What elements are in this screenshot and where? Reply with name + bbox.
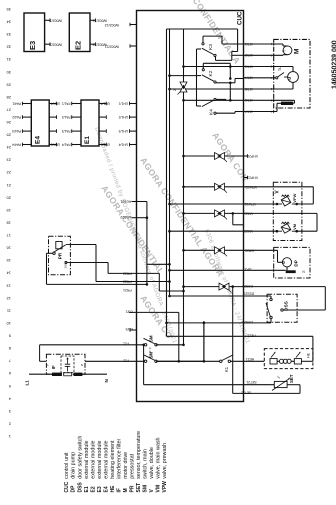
- svg-text:W002/21: W002/21: [105, 44, 119, 48]
- svg-text:PA4/3: PA4/3: [12, 129, 21, 133]
- svg-text:external module: external module: [97, 440, 103, 478]
- svg-text:UH1/4: UH1/4: [118, 143, 128, 147]
- svg-text:21: 21: [6, 183, 11, 188]
- svg-text:E2: E2: [73, 41, 82, 50]
- svg-text:control unit: control unit: [64, 452, 70, 479]
- svg-text:DP: DP: [71, 485, 77, 493]
- svg-text:SM: SM: [149, 335, 154, 342]
- svg-text:-: -: [104, 115, 105, 119]
- svg-text:IF: IF: [51, 365, 56, 369]
- svg-text:34: 34: [6, 20, 11, 25]
- svg-text:DSS21: DSS21: [242, 284, 253, 288]
- svg-text:UH1/2: UH1/2: [118, 115, 128, 119]
- svg-text:PA1/3: PA1/3: [62, 129, 71, 133]
- svg-text:28: 28: [6, 95, 11, 100]
- svg-text:13: 13: [6, 283, 11, 288]
- svg-text:DSS: DSS: [284, 300, 290, 311]
- svg-text:E3: E3: [97, 486, 103, 492]
- svg-text:15: 15: [6, 258, 11, 263]
- svg-text:M: M: [281, 260, 286, 264]
- svg-text:E4: E4: [35, 136, 42, 144]
- svg-text:32: 32: [6, 45, 11, 50]
- svg-text:E1: E1: [84, 486, 90, 492]
- svg-text:switch, main: switch, main: [143, 449, 149, 479]
- svg-text:-: -: [54, 115, 55, 119]
- svg-text:SM: SM: [149, 352, 154, 359]
- svg-text:UH1/3: UH1/3: [118, 129, 128, 133]
- svg-text:M: M: [287, 77, 292, 81]
- svg-text:UH4/4: UH4/4: [50, 102, 60, 106]
- svg-text:CUC: CUC: [237, 11, 244, 25]
- svg-text:drain pump: drain pump: [71, 452, 77, 479]
- svg-text:10: 10: [6, 321, 11, 326]
- svg-text:SET: SET: [289, 374, 294, 383]
- svg-text:DSS23: DSS23: [243, 291, 254, 295]
- svg-text:PA4/1: PA4/1: [12, 102, 21, 106]
- svg-text:DSS: DSS: [77, 482, 83, 493]
- svg-text:29: 29: [6, 82, 11, 87]
- svg-text:146050239 000: 146050239 000: [332, 40, 336, 89]
- svg-text:31: 31: [6, 57, 11, 62]
- svg-text:valve, double: valve, double: [149, 447, 155, 479]
- svg-text:external module: external module: [90, 440, 96, 478]
- svg-text:-: -: [104, 129, 105, 133]
- svg-text:sensor, temperature: sensor, temperature: [136, 431, 142, 479]
- svg-text:17: 17: [6, 233, 11, 238]
- svg-text:pressostat: pressostat: [130, 453, 136, 478]
- svg-text:VPW: VPW: [292, 193, 297, 202]
- svg-text:CUC: CUC: [64, 481, 70, 492]
- svg-text:HE: HE: [307, 352, 311, 358]
- svg-text:HE21: HE21: [246, 357, 255, 361]
- svg-text:W002/1: W002/1: [50, 19, 62, 23]
- svg-text:VHP23: VHP23: [247, 176, 258, 180]
- svg-text:TL: TL: [278, 67, 282, 71]
- svg-text:DJ/1: DJ/1: [126, 310, 133, 314]
- svg-text:external module: external module: [84, 440, 90, 478]
- svg-text:PR: PR: [58, 252, 63, 259]
- svg-text:Z: Z: [173, 89, 177, 91]
- svg-text:SET21: SET21: [246, 380, 256, 384]
- svg-text:F22: F22: [123, 359, 129, 363]
- svg-text:PA4/4: PA4/4: [12, 143, 21, 147]
- svg-text:PA1/2: PA1/2: [62, 115, 71, 119]
- svg-text:W002/11: W002/11: [93, 19, 107, 23]
- svg-text:HE: HE: [110, 485, 116, 493]
- svg-text:IF: IF: [116, 488, 122, 492]
- svg-text:E4: E4: [103, 486, 109, 492]
- svg-text:PR21: PR21: [123, 288, 132, 292]
- svg-text:PA4/2: PA4/2: [12, 115, 21, 119]
- svg-text:K3: K3: [208, 44, 214, 50]
- svg-text:E3: E3: [28, 41, 37, 50]
- svg-text:VPW: VPW: [162, 481, 168, 493]
- svg-text:W002/2: W002/2: [50, 43, 62, 47]
- svg-text:AGS22: AGS22: [120, 215, 131, 219]
- svg-text:PA1/4: PA1/4: [62, 143, 71, 147]
- svg-text:PA1/1: PA1/1: [62, 102, 71, 106]
- svg-text:AGS21: AGS21: [120, 199, 131, 203]
- svg-text:DP: DP: [294, 260, 299, 266]
- svg-text:valve, main wash: valve, main wash: [156, 437, 162, 478]
- svg-text:UH4/1: UH4/1: [50, 143, 60, 147]
- svg-text:27: 27: [6, 107, 11, 112]
- svg-text:12: 12: [6, 296, 11, 301]
- svg-text:VM: VM: [292, 223, 297, 230]
- svg-text:PR: PR: [130, 485, 136, 492]
- svg-text:SM: SM: [143, 485, 149, 493]
- svg-text:SET: SET: [136, 483, 142, 493]
- svg-text:16: 16: [6, 246, 11, 251]
- svg-text:UH1/1: UH1/1: [118, 102, 128, 106]
- svg-text:external module: external module: [103, 440, 109, 478]
- svg-text:14: 14: [6, 271, 11, 276]
- svg-text:18: 18: [6, 220, 11, 225]
- svg-text:22: 22: [6, 170, 11, 175]
- svg-text:T: T: [282, 49, 287, 52]
- svg-text:23: 23: [6, 158, 11, 163]
- svg-text:UH1/1: UH1/1: [100, 143, 110, 147]
- svg-text:24: 24: [6, 145, 11, 150]
- svg-text:K1: K1: [224, 366, 229, 372]
- svg-text:E2: E2: [90, 486, 96, 492]
- svg-text:M: M: [123, 488, 129, 492]
- svg-text:N: N: [81, 363, 83, 367]
- svg-text:-: -: [54, 129, 55, 133]
- svg-text:26: 26: [6, 120, 11, 125]
- svg-text:E1: E1: [84, 136, 91, 144]
- svg-text:L1: L1: [25, 380, 30, 386]
- svg-text:heating element: heating element: [110, 440, 116, 479]
- svg-text:25: 25: [6, 133, 11, 138]
- svg-text:interference filter: interference filter: [116, 438, 122, 478]
- svg-text:VM: VM: [156, 485, 162, 493]
- svg-text:K2: K2: [208, 70, 214, 76]
- svg-text:valve, prewash: valve, prewash: [162, 443, 168, 479]
- svg-text:door safety switch: door safety switch: [77, 436, 83, 479]
- svg-text:motor drive: motor drive: [123, 452, 129, 479]
- svg-text:33: 33: [6, 32, 11, 37]
- svg-text:M: M: [294, 49, 301, 54]
- svg-text:19: 19: [6, 208, 11, 213]
- svg-text:20: 20: [6, 195, 11, 200]
- svg-text:VHP21: VHP21: [247, 154, 258, 158]
- svg-text:UH1/4: UH1/4: [100, 102, 110, 106]
- svg-text:DJ/3: DJ/3: [126, 327, 133, 331]
- svg-text:K4: K4: [209, 109, 215, 115]
- svg-text:35: 35: [6, 7, 11, 12]
- svg-text:30: 30: [6, 70, 11, 75]
- svg-text:W002/12: W002/12: [105, 23, 119, 27]
